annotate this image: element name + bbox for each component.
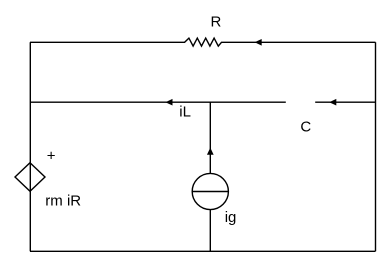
- svg-text:+: +: [47, 148, 56, 165]
- svg-text:C: C: [300, 118, 311, 135]
- svg-text:rm iR: rm iR: [45, 192, 81, 209]
- svg-text:ig: ig: [225, 209, 237, 226]
- svg-text:iL: iL: [179, 104, 191, 121]
- svg-text:R: R: [211, 14, 222, 31]
